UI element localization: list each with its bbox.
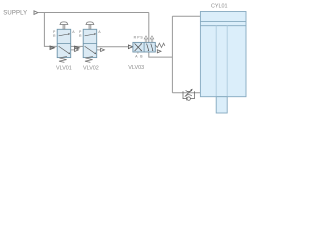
supply source symbol (triangle) [34, 11, 38, 15]
wire branch down to VLV01 [44, 13, 57, 47]
VLV02 top cell arrow [85, 34, 95, 36]
wire VLV03 port B down [149, 52, 173, 57]
VLV03 exhaust arrow on port R [144, 36, 148, 43]
VLV02 exhaust R stub [97, 49, 101, 51]
VLV02 body [83, 29, 97, 57]
flow control right tick [193, 91, 195, 96]
VLV02 bottom cell arrow [85, 46, 95, 53]
VLV03 left cell crossed arrows [135, 44, 142, 52]
wire to cylinder top port [172, 15, 200, 17]
VLV03 spring return right [155, 43, 165, 47]
wire supply drop into VLV03 P port [148, 13, 150, 43]
wire VLV02 to VLV03 pilot [97, 46, 133, 48]
svg-text:VLV01: VLV01 [56, 66, 72, 72]
svg-text:SUPPLY: SUPPLY [3, 11, 27, 17]
wire to cylinder bottom port through flow control [172, 92, 200, 94]
VLV03 body [133, 42, 155, 52]
wire vertical trunk [171, 16, 173, 93]
flow control bypass check valve [183, 96, 187, 98]
VLV02 pushbutton actuator [86, 22, 94, 29]
VLV01 pushbutton actuator [60, 22, 68, 29]
VLV02 spring return [85, 56, 93, 62]
flow control valve [183, 89, 194, 101]
VLV03 right cell arrows [147, 44, 153, 51]
cylinder CYL01 [200, 4, 246, 113]
VLV01 top cell arrow [59, 34, 69, 36]
VLV03 exhaust arrow on port S [150, 36, 154, 43]
valve VLV01 [53, 22, 78, 72]
VLV03 exhaust triangle right bottom [157, 50, 161, 53]
svg-text:VLV03: VLV03 [128, 65, 144, 71]
flow arrow VLV01 to VLV02 [75, 46, 80, 50]
wire supply main horizontal [38, 12, 149, 14]
svg-text:CYL01: CYL01 [211, 4, 227, 10]
VLV03 port A stub [137, 52, 139, 54]
flow arrow supply to VLV01 [50, 46, 55, 50]
flow control throttle arcs [186, 90, 192, 91]
CYL01 rod below barrel [216, 97, 227, 113]
CYL01 rod inside barrel [215, 26, 217, 97]
valve VLV03 [128, 35, 165, 71]
CYL01 piston [200, 20, 246, 22]
flow control adjust arrow [185, 90, 192, 97]
VLV01 body [57, 29, 70, 57]
wire VLV01 to VLV02 [71, 45, 84, 47]
VLV01 spring return [59, 56, 67, 62]
flow arrow VLV02 to VLV03 [128, 45, 132, 49]
VLV01 exhaust R stub [71, 49, 75, 51]
svg-text:VLV02: VLV02 [83, 66, 99, 72]
CYL01 barrel [200, 12, 246, 97]
valve VLV02 [79, 22, 104, 72]
flow control left tick [182, 91, 184, 96]
VLV01 bottom cell arrow [59, 46, 69, 53]
